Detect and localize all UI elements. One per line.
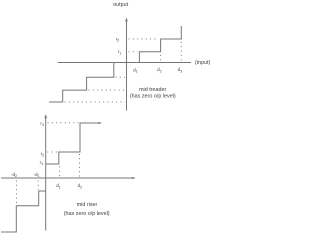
- svg-text:mid treader: mid treader: [139, 87, 166, 93]
- svg-text:(has zero o/p level): (has zero o/p level): [130, 94, 176, 100]
- bottom dotted vertical -d2: [16, 181, 18, 205]
- top staircase negative side: [49, 63, 114, 103]
- top dotted r1 level: [129, 51, 138, 53]
- bottom plot y-axis arrowhead: [44, 114, 47, 118]
- svg-text:(has zero o/p level): (has zero o/p level): [64, 211, 110, 217]
- bottom dotted r2 level: [47, 151, 57, 153]
- top dotted -r2 level: [89, 89, 126, 91]
- top dotted vertical d2: [160, 42, 162, 61]
- svg-text:output: output: [113, 2, 128, 8]
- bottom staircase positive side: [46, 123, 100, 164]
- top plot y-axis arrowhead: [125, 17, 128, 21]
- svg-text:(input): (input): [195, 60, 210, 66]
- bottom dotted vertical d2: [79, 154, 81, 177]
- bottom staircase negative side: [1, 191, 46, 232]
- top dotted -r1 level: [116, 76, 126, 78]
- bottom plot x-axis right arrowhead: [132, 177, 136, 179]
- bottom dotted vertical -d1: [37, 181, 39, 190]
- bottom dotted vertical d1: [59, 167, 61, 177]
- bottom r3 tread end arrowhead: [99, 122, 103, 124]
- top staircase positive side: [139, 26, 181, 63]
- bottom plot x-axis: [1, 177, 134, 179]
- bottom dotted r3 level: [48, 122, 79, 124]
- bottom plot y-axis: [45, 118, 47, 231]
- top dotted r2 level: [129, 38, 159, 40]
- top dotted -r3 level: [65, 101, 126, 103]
- top plot y-axis: [126, 21, 128, 111]
- top dotted vertical d3: [180, 42, 182, 61]
- svg-text:mid riser: mid riser: [77, 202, 98, 208]
- top plot x-axis: [58, 62, 191, 64]
